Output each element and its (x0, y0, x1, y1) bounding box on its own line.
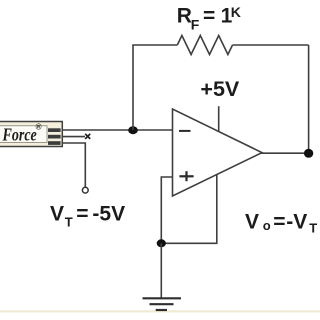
node B junction dot (ground node) (157, 239, 166, 247)
force sensor label Force® (2, 122, 42, 145)
svg-text:K: K (231, 4, 241, 20)
wire: sensor bottom lead down to VT terminal (62, 143, 86, 187)
svg-text:Force: Force (2, 126, 37, 145)
resistor RF zigzag (177, 36, 232, 55)
svg-text:T: T (309, 221, 317, 236)
x mark on middle lead (85, 134, 90, 139)
svg-text:-5V: -5V (92, 203, 125, 226)
label RF = 1K (177, 4, 241, 32)
op-amp plus input symbol (179, 171, 193, 181)
svg-text:=: = (273, 211, 285, 234)
wire: feedback right vertical (308, 45, 310, 153)
wire: down to ground (160, 243, 162, 298)
svg-text:V: V (245, 211, 259, 234)
wire: feedback top left horizontal (132, 44, 177, 46)
wire: sensor middle lead (open, x mark) (62, 136, 86, 138)
wire: feedback top right horizontal (233, 44, 309, 46)
svg-text:T: T (65, 214, 73, 229)
wire: +5V power pin (218, 106, 220, 131)
svg-text:-V: -V (286, 211, 307, 234)
label Vo = -VT (245, 211, 317, 236)
svg-text:V: V (50, 203, 64, 226)
svg-text:R: R (177, 5, 192, 28)
svg-text:®: ® (36, 122, 42, 131)
svg-text:=: = (76, 203, 88, 226)
wire: sensor top lead to inverting input (62, 129, 173, 131)
svg-text:F: F (191, 17, 200, 33)
force sensor connector pins (48, 128, 61, 145)
ground symbol (143, 298, 182, 310)
op-amp U1 triangle (173, 109, 263, 196)
wire: op-amp output (261, 152, 309, 154)
svg-text:=: = (203, 5, 215, 28)
force sensor FSR body (0, 122, 62, 147)
svg-text:o: o (263, 218, 271, 233)
wire: feedback left vertical (132, 45, 134, 130)
node A junction dot (inverting input node) (128, 126, 138, 134)
wire: non-inverting input lead (161, 177, 172, 243)
op-amp minus input symbol (179, 130, 191, 132)
label VT = -5V (50, 203, 125, 230)
terminal circle VT (82, 187, 88, 193)
svg-text:+5V: +5V (200, 77, 240, 101)
wire: ground return to op-amp bottom (161, 175, 217, 244)
node C output junction dot (304, 149, 313, 158)
